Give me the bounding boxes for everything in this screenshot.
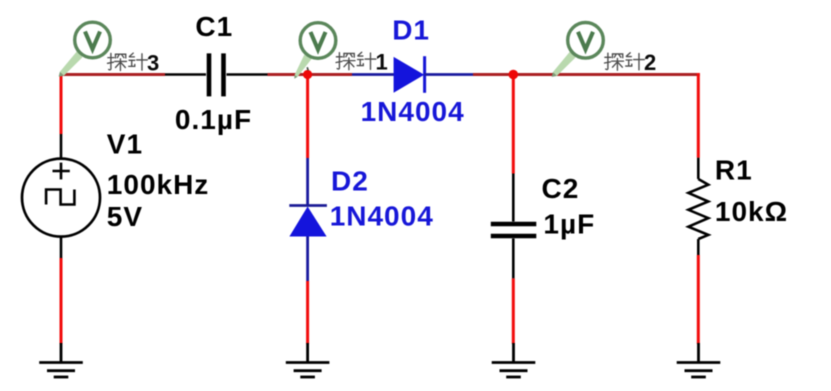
svg-text:10kΩ: 10kΩ <box>715 196 788 227</box>
probe 3 (magnifier) <box>59 22 111 76</box>
wire: C2 bottom to ground <box>512 278 515 344</box>
svg-text:3: 3 <box>147 50 159 75</box>
node: junction dot at D2 branch <box>303 70 312 79</box>
svg-text:R1: R1 <box>715 155 753 186</box>
probe 1 (magnifier) <box>294 23 336 79</box>
node: junction dot at C2 branch <box>509 70 519 80</box>
capacitor C1 <box>165 53 268 96</box>
ground (C2) <box>492 343 536 377</box>
source V1 <box>22 134 100 258</box>
wire: D1 cathode to R1 corner <box>473 73 700 76</box>
svg-text:1N4004: 1N4004 <box>361 96 465 127</box>
wire: D2 anode to ground <box>306 281 309 344</box>
svg-text:1N4004: 1N4004 <box>330 200 434 231</box>
svg-text:0.1µF: 0.1µF <box>175 104 252 135</box>
wire: R1 bottom to ground <box>697 255 700 344</box>
svg-text:D2: D2 <box>331 166 369 197</box>
ground (V1) <box>39 343 83 377</box>
capacitor C2 <box>491 174 537 279</box>
svg-text:V1: V1 <box>107 129 143 160</box>
diode D2 <box>289 158 327 281</box>
svg-text:D1: D1 <box>392 14 430 45</box>
svg-text:1: 1 <box>376 50 388 75</box>
probe 2 (magnifier) <box>552 23 604 77</box>
ground (D2) <box>286 343 330 377</box>
label 探针3 (probe 3 name) <box>108 50 160 75</box>
label 探针1 (probe 1 name) <box>336 50 388 75</box>
wire: C1 right to D1 left (node of probe 1) <box>268 73 353 76</box>
diode D1 <box>352 56 473 93</box>
ground (R1) <box>677 343 721 377</box>
resistor R1 <box>688 158 708 255</box>
svg-text:5V: 5V <box>107 201 143 232</box>
svg-text:1µF: 1µF <box>543 209 595 240</box>
wire: R1 branch top vertical <box>697 73 700 158</box>
wire: V1 top vertical <box>60 73 63 134</box>
svg-text:100kHz: 100kHz <box>107 169 210 200</box>
svg-text:C2: C2 <box>542 173 580 204</box>
label 探针2 (probe 2 name) <box>605 50 657 75</box>
wire: D2 branch top vertical <box>306 75 309 159</box>
svg-text:C1: C1 <box>195 11 233 42</box>
svg-text:2: 2 <box>644 50 656 75</box>
wire: C2 branch top vertical <box>512 75 515 174</box>
wire: V1 bottom to ground <box>60 258 63 344</box>
wire: main horizontal net, V1 to C1 <box>61 73 165 76</box>
